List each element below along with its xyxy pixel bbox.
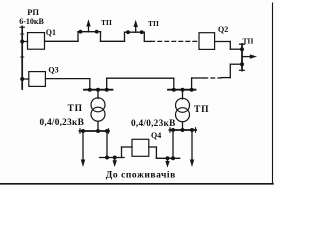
wire left lower horizontal bbox=[100, 157, 125, 159]
border bottom horizontal line bbox=[0, 183, 273, 185]
svg-text:0,4/0,23кВ: 0,4/0,23кВ bbox=[131, 119, 176, 129]
arrow tap2 up bbox=[135, 24, 137, 32]
switch Q3 bbox=[29, 72, 46, 87]
node right lower junction bbox=[171, 156, 175, 160]
switch Q4 bbox=[132, 139, 149, 156]
svg-text:0,4/0,23кВ: 0,4/0,23кВ bbox=[40, 118, 85, 128]
wire riser to Q4 bbox=[121, 147, 123, 158]
node tap1 right dot bbox=[95, 30, 99, 34]
node left LV dot C bbox=[105, 129, 109, 133]
wire ring riser to busbar bbox=[229, 64, 231, 77]
busbar ТП right bbox=[241, 44, 243, 71]
node right bar dot B bbox=[181, 88, 185, 92]
svg-text:ТП: ТП bbox=[148, 19, 159, 28]
border right vertical line bbox=[272, 3, 274, 184]
bus left LV bar right tick bbox=[108, 129, 110, 133]
node left bar dot B bbox=[96, 88, 100, 92]
busbar tick mark mid bbox=[21, 56, 24, 58]
bus right LV bar bbox=[170, 129, 197, 131]
busbar РП 6-10кВ bbox=[21, 27, 23, 90]
wire ring riser up from left bar bbox=[106, 78, 108, 90]
svg-text:ТП: ТП bbox=[194, 105, 209, 115]
wire Q4 right step down bbox=[155, 147, 157, 158]
wire to Q4 left bbox=[122, 146, 133, 148]
transformer T1 wire bottom bbox=[97, 121, 99, 131]
wire ring to ТП busbar bbox=[230, 63, 242, 65]
busbar top tick bbox=[20, 26, 24, 28]
wire right LV drop bbox=[172, 130, 174, 158]
wire tap2 right riser bbox=[143, 32, 145, 41]
busbar ТП right bottom tick bbox=[240, 69, 245, 71]
wire ring solid to corner bbox=[221, 77, 230, 79]
svg-text:До споживачів: До споживачів bbox=[106, 169, 176, 180]
node right bar dot C bbox=[190, 88, 194, 92]
wire step to ТП busbar bbox=[230, 48, 242, 50]
wire feeder segment between taps bbox=[101, 40, 125, 42]
busbar tick mark upper bbox=[21, 33, 24, 35]
wire tap2 raised segment bbox=[125, 31, 145, 33]
arrow consumer 4 down bbox=[191, 130, 193, 162]
node right lower arrow dot bbox=[166, 156, 170, 160]
wire ring solid stub bbox=[192, 77, 204, 79]
wire feeder solid stub after tap2 bbox=[144, 40, 151, 42]
svg-text:ТП: ТП bbox=[243, 37, 254, 46]
wire tap1 right riser bbox=[100, 32, 102, 42]
wire Q3 feeder bbox=[45, 78, 89, 80]
switch Q2 bbox=[199, 33, 215, 50]
node busbar-Q1 junction bbox=[20, 40, 24, 44]
transformer T2 wire bottom bbox=[182, 122, 184, 130]
wire ring dashed segment bbox=[204, 77, 221, 79]
bus right LV bar left tick bbox=[169, 128, 171, 132]
svg-text:РП: РП bbox=[27, 7, 39, 17]
wire feeder dashed segment to Q2 bbox=[151, 40, 199, 42]
svg-text:ТП: ТП bbox=[101, 18, 112, 27]
bus left LV bar bbox=[80, 130, 110, 132]
transformer T2 primary circle bbox=[176, 98, 190, 112]
svg-text:Q4: Q4 bbox=[151, 131, 161, 140]
node left lower arrow dot bbox=[113, 156, 117, 160]
svg-text:Q3: Q3 bbox=[48, 66, 58, 75]
wire tap1 raised segment bbox=[78, 31, 101, 33]
transformer T2 secondary circle bbox=[176, 108, 190, 122]
node left lower junction bbox=[105, 156, 109, 160]
node left LV dot B bbox=[96, 129, 100, 133]
wire busbar to Q1 bbox=[22, 41, 27, 43]
arrow consumer 3 down bbox=[167, 158, 169, 163]
wire ring riser up from right bar bbox=[191, 78, 193, 90]
node right LV dot C bbox=[190, 128, 194, 132]
node tap2 left dot bbox=[126, 30, 130, 34]
bus left ТП HV bar bbox=[84, 89, 113, 91]
node right LV dot B bbox=[181, 128, 185, 132]
bus right ТП HV bar bbox=[168, 89, 196, 91]
node left bar dot C bbox=[105, 88, 109, 92]
bus right LV bar right tick bbox=[195, 128, 197, 132]
wire busbar to Q3 bbox=[22, 78, 29, 80]
node ТП busbar top junction bbox=[240, 47, 244, 51]
node busbar-Q3 junction bbox=[20, 77, 24, 81]
node left LV dot A bbox=[81, 129, 85, 133]
wire drop to left ТП bar bbox=[89, 79, 91, 90]
wire right lower horizontal bbox=[156, 157, 179, 159]
wire Q2 to step bbox=[215, 41, 231, 43]
node right bar dot A bbox=[172, 88, 176, 92]
wire left LV drop bbox=[106, 131, 108, 158]
wire Q2 step down bbox=[229, 42, 231, 50]
node tap1 left dot bbox=[79, 30, 83, 34]
wire tap2 left riser bbox=[124, 32, 126, 41]
transformer T1 primary circle bbox=[91, 98, 105, 112]
svg-text:Q2: Q2 bbox=[218, 25, 228, 34]
switch Q1 bbox=[28, 33, 45, 50]
transformer T2 wire top bbox=[182, 90, 184, 99]
wire ring top segment bbox=[107, 77, 174, 79]
node right LV dot A bbox=[171, 128, 175, 132]
svg-text:ТП: ТП bbox=[68, 104, 83, 114]
arrow ТП busbar right bbox=[242, 56, 253, 58]
node left bar dot A bbox=[88, 88, 92, 92]
wire Q1 feeder segment bbox=[45, 40, 79, 42]
wire tap1 left riser bbox=[77, 32, 79, 42]
node tap2 right dot bbox=[140, 30, 144, 34]
arrow consumer 2 down bbox=[114, 158, 116, 163]
svg-text:Q1: Q1 bbox=[46, 28, 56, 37]
arrow consumer 1 down bbox=[82, 131, 84, 162]
wire Q4 right bbox=[149, 146, 157, 148]
arrow tap1 up bbox=[88, 24, 90, 32]
svg-text:6-10кВ: 6-10кВ bbox=[19, 17, 44, 26]
wire ring drop to right ТП bar bbox=[173, 78, 175, 90]
node ТП busbar bottom junction bbox=[240, 62, 244, 66]
bus left LV bar left tick bbox=[79, 129, 81, 133]
busbar ТП right top tick bbox=[240, 43, 245, 45]
transformer T1 secondary circle bbox=[91, 107, 105, 121]
transformer T1 wire top bbox=[97, 90, 99, 99]
